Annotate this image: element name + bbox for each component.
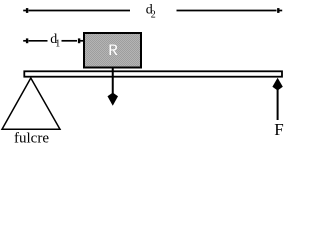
force arrow R arrowhead (down)	[108, 93, 119, 106]
force arrow F shaft (up)	[277, 88, 279, 120]
force arrow R shaft (down)	[112, 68, 114, 98]
svg-text:F: F	[274, 120, 283, 139]
dimension arrow d1 right arrowhead	[79, 40, 83, 42]
fulcrum triangle	[2, 78, 60, 129]
dimension arrow d1 right segment	[62, 40, 78, 42]
svg-text:2: 2	[151, 10, 156, 21]
dimension arrow d2 right arrowhead	[278, 10, 282, 12]
svg-text:1: 1	[55, 39, 60, 50]
dimension arrow d1 left arrowhead	[23, 40, 27, 42]
dimension arrow d2 left segment	[29, 10, 131, 12]
dimension arrow d2 right segment	[177, 10, 277, 12]
force arrow F arrowhead (up)	[272, 78, 282, 91]
dimension arrow d1 left segment	[29, 40, 48, 42]
svg-text:fulcre: fulcre	[14, 131, 49, 147]
beam	[24, 71, 282, 76]
svg-text:R: R	[108, 42, 118, 60]
dimension arrow d2 left arrowhead	[23, 10, 27, 12]
load block R	[84, 33, 141, 68]
